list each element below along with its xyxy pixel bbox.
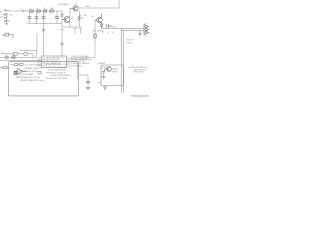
ceramic CF1 [12,56,15,59]
capacitor C1 polarized [20,10,27,13]
node riser B top bar [61,28,64,30]
node tick T3 [112,32,114,34]
svg-text:Q1 2SA101: Q1 2SA101 [58,3,70,6]
capacitor C8 [102,72,105,77]
IC U1 box [42,56,67,68]
wire speaker drop A [120,29,122,94]
wire antenna bus [0,60,42,62]
svg-text:8 ohm: 8 ohm [127,43,133,45]
pin stubs U1 right [67,58,71,66]
svg-text:4 IFT1 YEL 455kHz A: 4 IFT1 YEL 455kHz A [46,66,66,69]
wire IC riser B [61,29,63,57]
resistor R5 [20,63,23,65]
svg-text:OSC 455kHz: OSC 455kHz [92,31,104,33]
transistor Q2 [62,11,70,27]
svg-text:VOL 10k A CURVE: VOL 10k A CURVE [24,64,42,67]
resistor R8 ferrite lead [1,66,9,68]
node tick T1 [102,32,104,34]
output stage box [101,65,124,86]
wire ground return rail [28,23,63,25]
resistor R2 vertical [78,11,80,27]
wire pin9 long [71,57,96,59]
inductor L3 [44,10,47,12]
crystal Y1 [2,33,13,38]
svg-text:FERRITE BAR ANT 10mm: FERRITE BAR ANT 10mm [20,79,44,82]
wire bus step lower [2,52,33,58]
module box main PCB [9,62,79,96]
svg-text:10 DET DIODE 1N60 x1: 10 DET DIODE 1N60 x1 [50,75,73,77]
wire divider [77,62,79,79]
svg-text:6TR RADIO 55: 6TR RADIO 55 [131,94,149,98]
pin stubs U1 left [38,58,42,66]
ground GND3 below box [103,86,107,90]
svg-text:EARPHONE JACK 3.5mm: EARPHONE JACK 3.5mm [16,76,40,79]
capacitor C6 [107,24,112,28]
svg-text:2 OSC COIL RED T-20: 2 OSC COIL RED T-20 [46,64,67,66]
svg-text:12 AGC EXT 455 TRIM: 12 AGC EXT 455 TRIM [46,77,67,80]
node antenna riser [118,0,120,8]
svg-text:DRIVER: DRIVER [98,63,106,65]
wire vertical feed x95 [94,44,96,58]
capacitor C9 on riser [60,43,63,44]
connector J1 jack [144,24,149,36]
wire test point TP2 [79,29,82,34]
node tick T2 [107,32,109,34]
wire emitter Q1 to antenna [78,6,119,8]
resistor R7 [24,53,27,56]
wire rail drop x62 [61,11,63,27]
transistor Q4 left input pair [3,9,10,25]
wire detector out [102,28,122,30]
svg-text:PUSH: PUSH [112,72,118,74]
svg-text:6 IFT2 WHT 455kHz: 6 IFT2 WHT 455kHz [48,70,66,72]
svg-text:PJ: PJ [115,27,117,29]
transistor Q5 [101,67,111,72]
svg-text:5 IF IN 455k: 5 IF IN 455k [71,65,81,67]
svg-text:BATT 9V 006P SNAP: BATT 9V 006P SNAP [14,73,34,76]
inductor L2 [37,10,40,12]
capacitor C11 on drop [60,15,63,16]
wire speaker pair lower [122,30,145,32]
svg-text:8 IFT3 BLK 455kHz B: 8 IFT3 BLK 455kHz B [46,72,66,74]
svg-text:+ 100: + 100 [49,8,54,10]
wire long feed [0,51,37,58]
wire IC riser A [43,24,45,57]
transformer T2 triangle [14,69,26,75]
plug P1 pin [138,31,141,37]
paper background [0,0,150,100]
wire AGC out [79,75,89,81]
svg-text:L3: L3 [43,8,45,10]
svg-text:2SB56: 2SB56 [112,69,119,71]
ground GND2 [102,77,106,79]
wire speaker drop B [122,31,124,94]
filter T1 [6,55,9,59]
wire test point TP1 [74,29,77,34]
wire bus step left [20,33,37,51]
transistor Q1 [70,4,78,12]
capacitor C12 on riser A [42,30,45,32]
wire supply rail top [27,10,62,12]
wire speaker pair upper [122,28,145,30]
resistor R4 [15,63,18,65]
diode D3 [100,23,103,29]
capacitor C3 [35,11,39,24]
svg-text:AF AMP 2SB54 x2: AF AMP 2SB54 x2 [25,67,42,70]
capacitor C7 [86,81,90,87]
wire row1 link [10,64,20,66]
resistor R1 series [50,10,53,12]
svg-text:VOLT AT 9V: VOLT AT 9V [134,71,145,74]
svg-text:L2: L2 [36,8,38,10]
resistor R3 on riser [94,20,96,44]
wire notes bracket [128,65,133,67]
inductor L1 [30,10,33,12]
wire pin8 long [71,59,93,61]
wire input to C+ [9,10,20,12]
transistor Q3 [95,14,102,23]
svg-text:L1: L1 [29,8,31,10]
capacitor C5 [55,11,59,24]
capacitor C10 [38,71,41,74]
svg-text:SW POWER ON VOL: SW POWER ON VOL [19,71,39,73]
svg-text:CF1: CF1 [12,54,15,56]
capacitor C4 [42,11,46,24]
capacitor C2 [28,11,32,24]
resistor R6 [14,52,17,55]
ground GND1 [86,88,91,90]
switch S1 box [14,72,17,75]
wire emitter ground rail [62,26,82,28]
svg-text:EXT SP: EXT SP [127,40,135,42]
